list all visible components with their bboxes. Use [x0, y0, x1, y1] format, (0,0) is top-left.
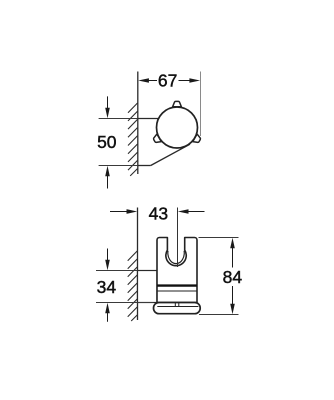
svg-text:43: 43: [149, 204, 168, 224]
thin separation line on body: [157, 290, 197, 292]
holder circle lug lower-left: [152, 134, 161, 144]
centre axis line through cup: [177, 240, 179, 267]
dimension 34: bottom arrow (outside, pointing up): [105, 303, 110, 322]
dimension 43: right arrow (outside, pointing left): [178, 209, 205, 214]
svg-text:84: 84: [223, 267, 243, 287]
dimension 67: right extension line: [200, 72, 202, 137]
dimension 50: bottom arrow (outside, pointing up): [105, 166, 110, 189]
dimension 50: bottom extension line: [99, 165, 138, 167]
dimension 34: top extension line: [96, 270, 138, 272]
dimension 43: right extension line / centre axis line: [177, 208, 179, 268]
dimension 67: dimension line with arrows: [138, 78, 200, 83]
dimension 34: top arrow (outside, pointing down): [105, 249, 110, 271]
dimension 84: top extension line: [199, 237, 239, 239]
svg-text:50: 50: [97, 132, 117, 152]
dimension 67: left extension line / wall line (top view): [137, 72, 139, 175]
dimension 43: left extension line / wall line (bottom view): [137, 208, 139, 321]
holder circle (top view): [157, 107, 198, 148]
dimension 84: dimension line with arrows: [230, 238, 235, 314]
base pill inner line: [157, 306, 198, 308]
wall hatching (top view): [128, 103, 138, 176]
base pill (escutcheon): [154, 303, 201, 314]
base pill centre notch: [174, 303, 176, 306]
svg-text:34: 34: [97, 277, 117, 297]
bracket bottom line: [138, 165, 151, 167]
holder body with fork slot: [157, 238, 197, 303]
holder circle lug top: [173, 101, 182, 106]
wall hatching (bottom view): [128, 251, 138, 321]
dimension 84: bottom extension line: [199, 314, 239, 316]
dimension 50: top extension line: [99, 118, 138, 120]
svg-text:67: 67: [158, 70, 177, 90]
bracket top line (wall to holder circle): [138, 118, 161, 120]
dimension 34: bottom extension line: [96, 302, 154, 304]
dimension 50: top arrow (outside, pointing down): [105, 96, 110, 118]
wall mounting block (side): [138, 271, 158, 303]
dimension 43: left arrow (outside, pointing right): [110, 209, 137, 214]
thick separation band on body: [157, 284, 197, 286]
bracket diagonal line: [151, 144, 190, 165]
fork cup inner arc: [168, 251, 184, 264]
holder circle lug lower-right: [193, 134, 202, 144]
